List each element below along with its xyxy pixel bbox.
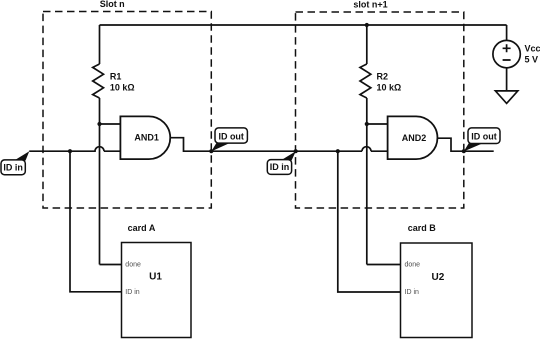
wire drop to card B ID in — [338, 151, 401, 292]
card A box — [122, 243, 192, 338]
value label R2 10 kOhm — [377, 72, 402, 93]
wire hop over R2 line — [362, 147, 371, 152]
wire R2 top lead — [366, 25, 368, 64]
junction bus / card A ID drop — [68, 149, 72, 153]
svg-text:10 kΩ: 10 kΩ — [377, 83, 402, 93]
svg-text:Slot n: Slot n — [100, 0, 125, 9]
svg-text:U2: U2 — [432, 272, 445, 283]
wire Vcc source top lead — [506, 25, 508, 40]
svg-text:slot n+1: slot n+1 — [353, 0, 387, 10]
wire R2 bottom lead down to card B done — [367, 98, 401, 265]
flag ID out (slot n boundary) — [211, 128, 247, 151]
wire ID bus west segment with hop over R1 line — [29, 147, 120, 152]
wire AND1 top input stub — [100, 123, 121, 125]
junction at Slot n boundary (ID out) — [209, 149, 213, 153]
svg-text:card B: card B — [408, 223, 437, 233]
flag ID out (right boundary) — [464, 128, 500, 151]
junction bus / card B ID drop — [336, 149, 340, 153]
svg-text:Vcc: Vcc — [525, 44, 540, 54]
voltage source V1 Vcc — [493, 40, 520, 67]
wire R1 top lead — [99, 25, 101, 64]
wire AND2 output to right stub — [438, 138, 494, 151]
resistor R2 — [360, 64, 371, 98]
label Vcc 5 V — [525, 44, 540, 65]
svg-text:5 V: 5 V — [525, 55, 539, 65]
svg-text:ID in: ID in — [405, 289, 420, 296]
card B box — [401, 243, 473, 338]
wire AND2 top input stub — [367, 123, 388, 125]
wire drop to card A ID in — [70, 151, 122, 292]
wire AND1 output to bus — [170, 138, 387, 152]
value label R1 10 kOhm — [110, 72, 135, 93]
svg-text:ID in: ID in — [125, 289, 140, 296]
ground — [495, 91, 517, 104]
svg-text:R2: R2 — [377, 72, 389, 82]
svg-text:ID out: ID out — [471, 132, 497, 142]
svg-text:AND2: AND2 — [402, 133, 427, 143]
op-amp gate AND1 — [120, 116, 170, 159]
resistor R1 — [93, 64, 104, 98]
svg-text:done: done — [125, 262, 141, 269]
slot enclosure Slot n — [43, 12, 211, 209]
svg-text:ID in: ID in — [270, 162, 290, 172]
op-amp gate AND2 — [388, 116, 438, 159]
wire Vcc source bottom lead — [506, 68, 508, 91]
junction at R2 / AND2 input — [365, 122, 369, 126]
junction at R1 / AND1 input — [97, 122, 101, 126]
svg-text:AND1: AND1 — [134, 132, 159, 142]
junction Vcc rail / R2 — [365, 23, 369, 27]
svg-text:ID in: ID in — [3, 163, 23, 173]
slot enclosure slot n+1 — [296, 12, 464, 208]
wire R1 bottom lead down to card A done — [100, 98, 122, 265]
svg-text:10 kΩ: 10 kΩ — [110, 83, 135, 93]
junction at slot n+1 boundary (ID in) — [294, 149, 298, 153]
flag ID in (slot n+1 boundary) — [267, 151, 296, 174]
wire top Vcc rail — [100, 24, 507, 26]
svg-text:U1: U1 — [149, 272, 162, 283]
flag ID in (left input) — [1, 151, 29, 175]
svg-text:ID out: ID out — [218, 131, 244, 141]
svg-text:R1: R1 — [110, 72, 122, 82]
svg-text:done: done — [405, 262, 421, 269]
junction at slot n+1 boundary (ID out) — [462, 149, 466, 153]
svg-text:card A: card A — [128, 223, 156, 233]
